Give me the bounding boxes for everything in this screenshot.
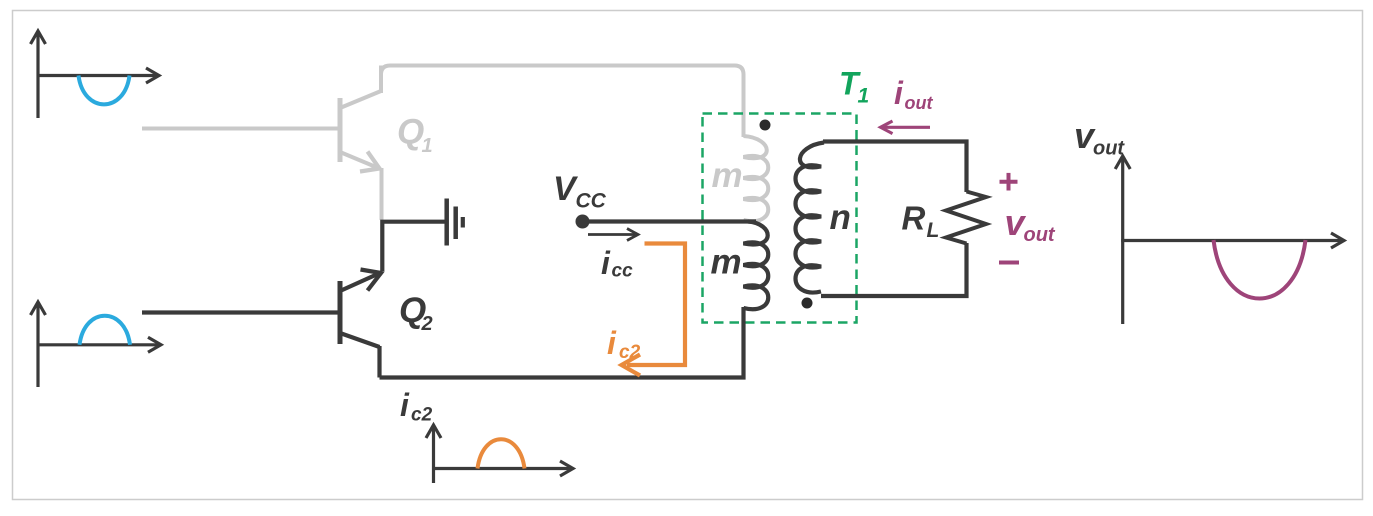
label T1 (green) — [839, 66, 869, 108]
transformer boundary T1 (green dashed) — [703, 114, 857, 323]
input waveform axes (bottom-left) — [31, 302, 162, 387]
svg-text:1: 1 — [422, 135, 433, 157]
polarity dot (secondary, bottom) — [802, 298, 813, 309]
resistor RL — [946, 192, 986, 244]
winding m upper (gray, primary top half) — [744, 136, 769, 221]
winding m lower (black, primary bottom half) — [744, 222, 769, 310]
label icc — [601, 245, 633, 282]
svg-text:L: L — [927, 219, 940, 242]
wire: emitters junction to ground — [382, 222, 445, 271]
output half-sine (negative, purple) — [1214, 240, 1306, 299]
current path ic2 (orange) — [622, 244, 686, 376]
label - — [999, 261, 1019, 265]
ic2 half-sine (positive, orange) — [478, 439, 525, 468]
svg-text:2: 2 — [421, 313, 433, 335]
svg-text:R: R — [902, 200, 926, 237]
svg-text:m: m — [712, 156, 743, 195]
input half-sine (positive, cyan, bottom-left) — [80, 316, 131, 345]
label vout (black, graph) — [1074, 115, 1125, 160]
arrow iout (purple) — [881, 121, 931, 134]
label VCC — [553, 170, 607, 213]
svg-text:c2: c2 — [411, 405, 433, 426]
wire: secondary top to RL — [823, 142, 967, 193]
wire: VCC to transformer center tap — [583, 219, 757, 223]
output waveform axes (right) — [1115, 156, 1344, 324]
svg-text:n: n — [830, 198, 851, 237]
label vout (purple) — [1005, 202, 1056, 246]
wire: Q2 collector bottom rail — [380, 307, 744, 378]
label ic2 (orange) — [607, 325, 641, 363]
svg-text:out: out — [1024, 224, 1056, 246]
wire: secondary bottom to RL — [821, 243, 967, 296]
svg-text:1: 1 — [858, 85, 870, 108]
polarity dot (primary, top) — [760, 120, 771, 131]
label Q1 — [397, 113, 433, 158]
svg-text:Q: Q — [397, 113, 424, 152]
svg-text:out: out — [1093, 138, 1125, 160]
wire: Q1 collector to transformer (gray top rail) — [381, 66, 744, 138]
arrowhead: Q2 emitter — [361, 270, 382, 291]
label iout (purple) — [894, 75, 933, 113]
transistor Q1 (gray, inactive) — [340, 66, 382, 221]
wire: base of Q1 (gray) — [142, 127, 338, 131]
svg-text:cc: cc — [612, 261, 634, 282]
label + — [1000, 173, 1018, 191]
input waveform axes (top-left) — [31, 31, 160, 118]
label Q2 — [399, 291, 433, 335]
svg-text:i: i — [607, 325, 617, 361]
label ic2 (black, graph) — [400, 387, 433, 426]
svg-text:CC: CC — [576, 190, 607, 213]
svg-text:i: i — [400, 387, 410, 423]
arrowhead: Q1 emitter (gray) — [360, 152, 380, 172]
svg-text:out: out — [905, 93, 934, 113]
node VCC — [576, 215, 590, 229]
ground — [447, 199, 463, 246]
winding n (secondary) — [796, 143, 825, 293]
input half-sine (negative, cyan, top-left) — [79, 76, 130, 105]
arrow icc — [588, 229, 638, 241]
svg-text:i: i — [601, 245, 611, 281]
transistor Q2 — [340, 273, 381, 378]
ic2 waveform axes (bottom) — [426, 425, 573, 483]
label RL — [902, 200, 940, 243]
wire: base of Q2 — [142, 310, 338, 314]
svg-text:c2: c2 — [619, 342, 641, 363]
svg-text:m: m — [711, 243, 742, 282]
svg-text:i: i — [894, 75, 904, 111]
